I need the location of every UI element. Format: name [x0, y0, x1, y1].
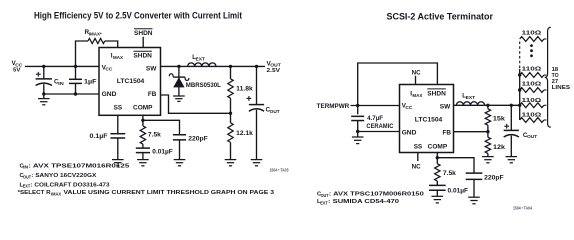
- pin SS (U2): [414, 143, 423, 150]
- svg-text:SW: SW: [440, 103, 451, 110]
- svg-text:VALUE USING CURRENT LIMIT THRE: VALUE USING CURRENT LIMIT THRESHOLD GRAP…: [64, 190, 275, 196]
- svg-text:0.01µF: 0.01µF: [448, 188, 469, 195]
- svg-text:GND: GND: [102, 91, 117, 98]
- svg-text:2.5V: 2.5V: [267, 68, 281, 74]
- resistor 12.1k: [228, 113, 253, 159]
- junction TERMPWR: [356, 104, 359, 107]
- capacitor 1uF bypass: [69, 66, 97, 94]
- pin GND (U2): [402, 129, 417, 136]
- svg-text:*SELECT R: *SELECT R: [18, 190, 52, 196]
- svg-text:110Ω: 110Ω: [522, 66, 542, 72]
- title: SCSI-2 Active Terminator: [387, 11, 494, 21]
- svg-text:LTC1504: LTC1504: [415, 116, 443, 123]
- wire FB net (left): [161, 95, 231, 113]
- note LEXT part number (right): [317, 199, 399, 205]
- ground under COUT (right): [506, 157, 518, 163]
- svg-text:SHDN: SHDN: [134, 30, 153, 37]
- ground under 12k: [482, 157, 494, 163]
- capacitor COUT electrolytic (right): [504, 105, 538, 156]
- pin VCC (U2): [402, 102, 414, 109]
- node VCC 5V input: [12, 60, 24, 73]
- ground under COUT (left): [251, 160, 263, 166]
- svg-text:EXT: EXT: [466, 95, 476, 100]
- wire 4.7uF to GND pin: [358, 131, 400, 133]
- capacitor 0.01uF (left): [136, 144, 173, 160]
- svg-text:SCSI-2 Active Terminator: SCSI-2 Active Terminator: [387, 11, 494, 21]
- note CIN part number: [20, 163, 131, 169]
- op-amp U1 LTC1504 regulator (left): [99, 48, 161, 116]
- wire FB net (right): [454, 131, 488, 133]
- resistor 7.5k (left): [140, 120, 161, 144]
- note LEXT part number: [20, 182, 111, 188]
- svg-text:SHDN: SHDN: [133, 53, 152, 60]
- svg-text:CC: CC: [405, 105, 413, 110]
- resistor 11.8k: [228, 66, 253, 113]
- svg-text:NC: NC: [412, 69, 422, 76]
- svg-text:11.8k: 11.8k: [236, 86, 253, 93]
- junction FB-12k: [486, 130, 489, 133]
- wire SW to VOUT: [161, 65, 266, 67]
- wire SHDN tie to VCC loop: [358, 63, 438, 106]
- svg-text:COMP: COMP: [133, 105, 153, 112]
- svg-text:IN: IN: [58, 81, 64, 86]
- junction VCC-CIN: [42, 65, 45, 68]
- svg-text:110Ω: 110Ω: [522, 112, 542, 118]
- svg-text:High Efficiency 5V to 2.5V Con: High Efficiency 5V to 2.5V Converter wit…: [34, 11, 242, 21]
- ground under diode D1: [173, 96, 185, 101]
- svg-text:COMP: COMP: [428, 143, 448, 150]
- svg-text:SS: SS: [114, 105, 123, 112]
- ground under 220pF (left): [174, 160, 186, 166]
- ground under 220pF (right): [468, 197, 480, 204]
- svg-text:220pF: 220pF: [188, 135, 208, 142]
- node VOUT 2.5V: [267, 60, 282, 74]
- junction VOUT-COUT: [255, 65, 258, 68]
- svg-text:110Ω: 110Ω: [522, 31, 542, 37]
- svg-text:: SANYO 16CV220GX: : SANYO 16CV220GX: [31, 173, 96, 179]
- capacitor CIN 100uF electrolytic: [36, 66, 65, 94]
- capacitor COUT electrolytic (left): [247, 66, 280, 159]
- svg-text:: AVX TPSE107M016R0125: : AVX TPSE107M016R0125: [28, 163, 130, 169]
- svg-text:OUT: OUT: [321, 193, 329, 198]
- svg-text:LINES: LINES: [552, 85, 571, 91]
- svg-text:SW: SW: [146, 65, 157, 72]
- svg-text:: SUMIDA CD54-470: : SUMIDA CD54-470: [328, 199, 399, 205]
- svg-text:MBRS0530L: MBRS0530L: [186, 82, 221, 89]
- svg-text:220pF: 220pF: [484, 175, 504, 182]
- junction SW-COUT: [510, 104, 513, 107]
- junction VOUT-11.8k: [229, 65, 232, 68]
- svg-text:: COILCRAFT DO3316-473: : COILCRAFT DO3316-473: [31, 182, 111, 188]
- diode D1 MBRS0530L schottky: [169, 66, 221, 96]
- junction COMP: [141, 119, 144, 122]
- ground under 0.1uF: [112, 160, 124, 166]
- ground under 4.7uF: [352, 132, 364, 144]
- svg-text:SHDN: SHDN: [427, 90, 446, 97]
- wire SHDN to pin: [142, 37, 144, 48]
- svg-text:7.5k: 7.5k: [148, 132, 161, 139]
- junction COMP (right): [436, 156, 439, 159]
- pin SS (U1): [114, 105, 123, 112]
- svg-text:IMAX*: IMAX*: [89, 32, 102, 37]
- junction SW-15k: [486, 104, 489, 107]
- wire COMP node: [142, 115, 144, 120]
- capacitor 4.7uF ceramic: [351, 106, 394, 132]
- svg-text:15k: 15k: [493, 116, 505, 123]
- pin stub IMAX NC (U2): [412, 69, 422, 84]
- resistor 110ohm row4: [520, 98, 547, 108]
- node TERMPWR input: [317, 103, 350, 110]
- svg-text:CC: CC: [105, 67, 113, 72]
- figure tag 1504 TA04: [513, 206, 533, 211]
- junction VCC-1uF: [74, 65, 77, 68]
- brace 18 to 27 lines: [545, 27, 571, 127]
- svg-text:FB: FB: [443, 129, 452, 136]
- svg-text:7.5k: 7.5k: [443, 170, 456, 177]
- inductor LEXT (right): [456, 94, 484, 106]
- svg-text:0.01µF: 0.01µF: [152, 148, 173, 155]
- note COUT part number: [20, 173, 97, 179]
- wire COMP node (right): [436, 153, 438, 158]
- svg-text:12k: 12k: [493, 144, 505, 151]
- op-amp U2 LTC1504 regulator (right): [400, 85, 454, 153]
- resistor RIMAX*: [76, 29, 118, 66]
- svg-text:LTC1504: LTC1504: [117, 78, 145, 85]
- pin SW (U1): [146, 65, 157, 72]
- svg-text:FB: FB: [148, 91, 157, 98]
- junction 1uF-gnd: [74, 92, 77, 95]
- resistor 110ohm row1: [520, 31, 547, 42]
- wire SW rail (right): [454, 104, 520, 106]
- pin COMP (U1): [133, 105, 153, 112]
- svg-text:OUT: OUT: [527, 134, 537, 139]
- svg-text:1504 • TA03: 1504 • TA03: [270, 168, 290, 173]
- wire TERMPWR rail: [351, 105, 400, 107]
- resistor 15k: [485, 105, 505, 131]
- capacitor 0.1uF soft-start: [90, 115, 126, 159]
- svg-text:OUT: OUT: [270, 109, 280, 114]
- capacitor 220pF (left): [143, 120, 208, 159]
- svg-text:CERAMIC: CERAMIC: [366, 124, 394, 130]
- svg-text:MAX: MAX: [113, 55, 124, 60]
- svg-text:5V: 5V: [13, 67, 21, 73]
- svg-text:1µF: 1µF: [84, 79, 97, 86]
- svg-text:EXT: EXT: [320, 200, 328, 205]
- svg-text:EXT: EXT: [23, 184, 31, 189]
- svg-text:MAX: MAX: [412, 93, 423, 98]
- resistor 110ohm row2: [518, 66, 546, 77]
- pin SHDN (U2): [427, 89, 446, 98]
- pin IMAX (U2): [410, 90, 423, 97]
- wire VCC rail: [25, 65, 99, 67]
- svg-text:: AVX TPSC107M006R0150: : AVX TPSC107M006R0150: [329, 192, 424, 198]
- pin GND (U1): [102, 91, 117, 98]
- pin SW (U2): [440, 103, 451, 110]
- junction 4.7uF-gnd: [356, 130, 359, 133]
- svg-text:110Ω: 110Ω: [522, 81, 542, 87]
- svg-text:TERMPWR: TERMPWR: [317, 103, 350, 110]
- pin FB (U1): [148, 91, 157, 98]
- svg-text:OUT: OUT: [23, 174, 31, 179]
- junction FB divider: [229, 112, 232, 115]
- wire ladder bus: [519, 69, 521, 120]
- ground under 0.01uF (left): [137, 160, 149, 166]
- wire ground rail to GND pin: [44, 93, 99, 95]
- pin stub SS NC (U2): [412, 153, 422, 171]
- svg-text:NC: NC: [412, 164, 422, 171]
- svg-text:110Ω: 110Ω: [522, 98, 542, 104]
- resistor 12k: [485, 132, 505, 157]
- capacitor 0.01uF (right): [429, 181, 468, 196]
- ground under CIN: [38, 94, 50, 105]
- inductor LEXT (left): [188, 55, 216, 66]
- svg-text:12.1k: 12.1k: [236, 130, 253, 137]
- wire dashed ladder continuation: [519, 42, 521, 70]
- resistor 110ohm row3: [518, 81, 546, 92]
- title: High Efficiency 5V to 2.5V Converter with Current Limit: [34, 11, 242, 21]
- svg-text:0.1µF: 0.1µF: [90, 133, 108, 140]
- svg-text:IMAX: IMAX: [51, 192, 61, 197]
- junction CIN-gnd: [42, 92, 45, 95]
- ground under 0.01uF (right): [432, 196, 444, 203]
- resistor 7.5k (right): [435, 158, 457, 181]
- note select RIMAX: [18, 190, 275, 196]
- svg-text:EXT: EXT: [196, 57, 206, 62]
- pin VCC (U1): [102, 64, 114, 71]
- node SHDN input (active low): [134, 29, 153, 38]
- junction SW-diode: [177, 65, 180, 68]
- svg-text:GND: GND: [402, 129, 417, 136]
- svg-text:SS: SS: [414, 143, 423, 150]
- pin FB (U2): [443, 129, 452, 136]
- pin IMAX (U1): [111, 53, 124, 60]
- note COUT part number (right): [317, 192, 424, 198]
- svg-text:4.7µF: 4.7µF: [367, 116, 383, 122]
- figure tag 1504 TA03: [270, 168, 290, 173]
- ground under 12.1k: [225, 160, 237, 166]
- resistor 110ohm row5: [520, 112, 547, 122]
- pin COMP (U2): [428, 143, 448, 150]
- svg-text:1504 • TA04: 1504 • TA04: [513, 206, 533, 211]
- junction SW-ladder: [518, 104, 521, 107]
- node ellipsis dots: [530, 44, 533, 57]
- capacitor 220pF (right): [437, 158, 504, 198]
- pin SHDN (U1): [133, 51, 152, 60]
